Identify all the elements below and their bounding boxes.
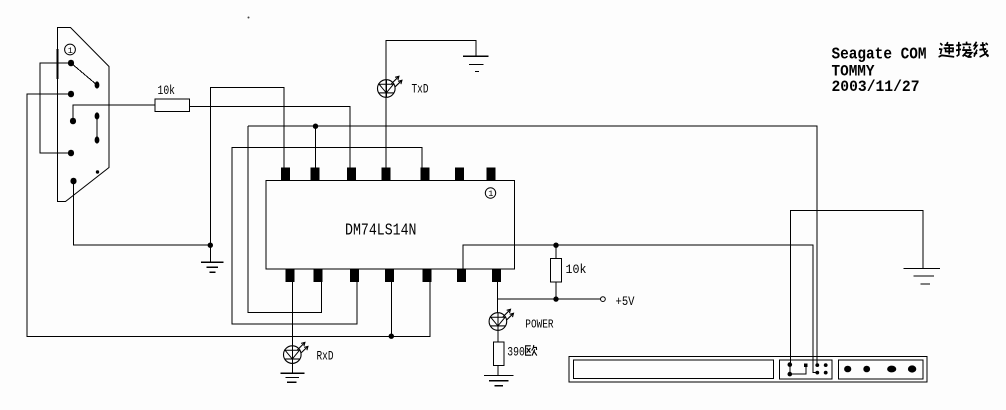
LED TxD — [378, 76, 402, 97]
wire J1 pin1 to pin4 tie (left loop) — [40, 63, 71, 153]
wire net U1 top pin2 horizontal run to jumper block — [248, 126, 817, 364]
jumper pin col1 bottom — [788, 372, 793, 377]
U1 top pin 5 — [420, 168, 429, 181]
J1 pin 4 — [68, 150, 74, 157]
power connector inner outline — [838, 360, 923, 379]
J1 pin 1 — [68, 60, 74, 67]
jumper pin col3 top — [815, 363, 819, 367]
wire net U1 bottom pin3 to U1 top pin5 — [232, 147, 422, 324]
svg-text:POWER: POWER — [525, 317, 553, 331]
J1 pin 3 — [70, 118, 76, 125]
wire right box: jumper col1 riser, top run, down to ground — [790, 211, 923, 365]
svg-text:1: 1 — [68, 46, 73, 56]
terminal open circle +5V — [601, 297, 606, 302]
wire R3 to ground — [497, 365, 499, 375]
svg-text:2003/11/27: 2003/11/27 — [832, 78, 920, 96]
U1 bottom pin 3 — [350, 269, 359, 282]
LED POWER — [489, 309, 513, 330]
J1 pin 8 — [95, 136, 100, 143]
jumper block inner outline — [780, 360, 833, 379]
wire J1 pin1 to pin6 (diagonal) — [71, 63, 97, 85]
power connector pin 1 — [844, 366, 851, 373]
svg-text:390: 390 — [507, 345, 525, 359]
junction dot at +5V rail — [553, 296, 558, 301]
U1 top pin 2 — [311, 168, 320, 181]
label pin-1 marker circled-1 at J1 — [65, 44, 76, 56]
connector edge strip inner outline — [574, 360, 774, 379]
U1 bottom pin 2 — [314, 269, 323, 282]
wire junction down to U1 top pin2 — [315, 126, 317, 167]
J1 pin 5 — [70, 178, 76, 185]
ground symbol right side — [904, 269, 941, 285]
ground symbol at TxD — [463, 56, 488, 71]
U1 top pin 1 — [281, 168, 290, 181]
ground symbol at RxD — [281, 373, 305, 382]
wire J1 pin3 up to resistor R1 — [73, 105, 155, 121]
U1 top pin 6 — [455, 168, 464, 181]
U1 bottom pin 7 — [492, 269, 501, 282]
LED RxD — [284, 342, 308, 363]
jumper pin col3 bottom — [815, 371, 819, 375]
wire LED RxD to ground — [291, 363, 293, 373]
wire R1 to U1 top pin3 — [189, 106, 350, 167]
op-amp U1 DM74LS14N body — [266, 181, 515, 269]
wire J1 pin7 to pin8 tie — [96, 116, 98, 140]
svg-text:10k: 10k — [566, 263, 587, 277]
svg-text:1: 1 — [488, 189, 493, 199]
stray speck artifact — [248, 17, 250, 19]
wire U1 bottom pin4 down to junction — [390, 282, 392, 336]
wire R2 bottom stub to +5V rail — [555, 282, 557, 299]
svg-text:10k: 10k — [158, 84, 176, 98]
wire U1 top pin4 up through LED TxD to ground — [386, 41, 476, 168]
thick segment on J1 left edge — [56, 49, 58, 79]
wire U1 bottom pin7 down to LED POWER — [497, 282, 499, 313]
connector J1 DB9 body — [58, 28, 110, 202]
ground symbol at J1 pin5 node — [201, 262, 224, 272]
junction dot at R2 top — [553, 243, 558, 248]
wire jumper col1-bottom to col2-top pin — [790, 367, 806, 374]
U1 top pin 7 — [487, 168, 496, 181]
power connector pin 4 — [908, 365, 916, 372]
junction dot above U1 top pin2 — [313, 124, 318, 129]
svg-text:Seagate COM: Seagate COM — [832, 45, 927, 64]
wire R2 top stub — [555, 245, 557, 259]
J1 pin 7 — [95, 112, 100, 119]
J1 pin 2 — [68, 91, 74, 98]
jumper pin col1 top — [788, 362, 793, 367]
wire U1 bottom pin1 down to LED RxD — [291, 282, 293, 346]
U1 top pin 3 — [347, 168, 356, 181]
wire net U1 bottom pin6 riser and run to jumper col3 bottom — [463, 245, 816, 372]
U1 bottom pin 4 — [385, 269, 394, 282]
title line 1 CJK lian-jie-xian glyphs — [939, 42, 989, 57]
resistor R3 body (vertical 390 ohm) — [493, 342, 504, 366]
power connector pin 2 — [863, 366, 870, 373]
svg-text:TxD: TxD — [412, 83, 429, 97]
U1 bottom pin 1 — [286, 269, 295, 282]
ground symbol at POWER LED — [484, 376, 514, 386]
svg-text:RxD: RxD — [317, 350, 334, 364]
resistor R2 body (vertical 10k) — [551, 259, 562, 283]
resistor R1 body — [155, 99, 190, 111]
wire J1 pin2 down-left long run to U1 pin4-out node — [27, 94, 430, 336]
U1 bottom pin 5 — [422, 269, 431, 282]
wire ground junction stub down — [209, 245, 211, 262]
junction dot ground node — [208, 243, 213, 248]
J1 pin 6 — [95, 81, 100, 88]
label pin-1 marker circled-1 at U1 — [485, 188, 495, 199]
wire LED POWER to resistor R3 — [497, 330, 499, 342]
wire left leg down to U1 bottom pin2 — [248, 126, 321, 312]
wire ground junction riser to U1 top pin1 — [210, 88, 284, 246]
label R3 unit CJK ou (ohm) glyph — [526, 345, 537, 356]
U1 top pin 4 — [382, 168, 391, 181]
connector row outer body — [569, 356, 927, 382]
wire J1 pin5 down to ground junction — [74, 181, 211, 245]
junction dot at U1 pin4 output on long run — [389, 334, 394, 339]
jumper pin col4 top — [824, 363, 828, 367]
J1 pin 9 — [96, 170, 99, 173]
U1 bottom pin 6 — [457, 269, 466, 282]
jumper pin col2 top (square) — [804, 363, 808, 367]
wire +5V rail — [498, 298, 601, 300]
wire jumper col1 link — [789, 365, 791, 375]
power connector pin 3 — [887, 366, 896, 373]
jumper pin col4 bottom — [824, 371, 828, 375]
svg-text:DM74LS14N: DM74LS14N — [345, 220, 417, 239]
svg-text:+5V: +5V — [616, 295, 635, 309]
